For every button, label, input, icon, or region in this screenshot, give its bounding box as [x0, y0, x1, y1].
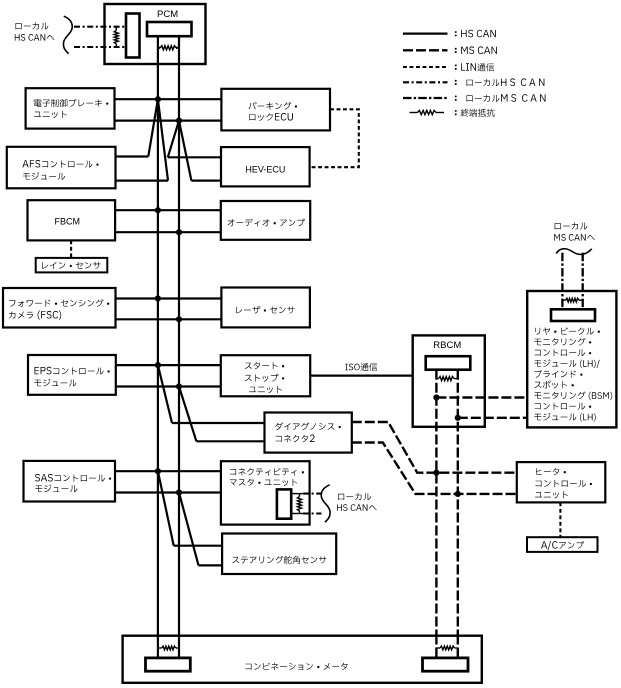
wire diag2 CAN-L: [196, 440, 264, 442]
module connector rear monitor: [551, 309, 595, 321]
label ISO comm: [345, 363, 377, 371]
terminating resistor meter left: [158, 647, 162, 649]
node MS1/heater: [433, 470, 439, 476]
wire MS CAN to rear monitor line2: [458, 417, 527, 419]
wire diag2 MS line1: [352, 422, 517, 473]
ECU box: audio amp: [221, 201, 310, 240]
ECU box: diagnosis connector 2: [265, 413, 352, 453]
wire local HS CAN lower (dash-dot): [74, 46, 126, 48]
wire MS bus2 inside meter: [457, 635, 459, 658]
node bus2/FSC: [176, 316, 182, 322]
terminating resistor in RBCM: [436, 378, 438, 380]
legend line local HS CAN: [403, 81, 448, 83]
ECU box: A/C amp: [527, 537, 598, 552]
legend label LIN: [455, 63, 494, 71]
wire SAS CAN-H to connectivity: [115, 470, 221, 472]
label connectivity local line1: [338, 493, 371, 500]
label FSC line1: [9, 299, 109, 307]
label diag2 line1: [275, 422, 341, 430]
wire HEV CAN-L: [191, 180, 221, 182]
label rain sensor: [42, 262, 100, 269]
legend label local HS CAN: [455, 78, 545, 86]
wire SAS CAN-L to connectivity: [115, 491, 221, 493]
module connector RBCM: [426, 356, 471, 370]
node bus2/FBCM: [176, 229, 182, 235]
label local HS CAN line2: [15, 34, 55, 41]
wire AFS CAN-H: [116, 155, 149, 157]
label A/C amp: [541, 541, 584, 550]
label local MS line2: [554, 234, 595, 241]
ECU box: HEV-ECU: [221, 147, 310, 186]
terminating resistor meter right: [436, 647, 440, 649]
label laser sensor: [236, 306, 294, 314]
wire ISO comm start-stop to RBCM: [310, 375, 413, 377]
connector J1 inside PCM: [126, 14, 140, 58]
svg-text:HEV-ECU: HEV-ECU: [245, 164, 285, 174]
legend label local MS CAN: [455, 94, 546, 102]
wire FBCM CAN-L to audio amp: [115, 231, 221, 233]
label connectivity line1: [230, 468, 304, 476]
ECU box: SAS control module: [24, 461, 116, 502]
wire diag2 CAN-H: [172, 422, 265, 424]
wire local HS lower (connectivity): [291, 513, 303, 515]
label start-stop line2: [245, 374, 284, 382]
wire diag2 CAN-L diagonal: [179, 387, 196, 442]
ECU box: heater control unit: [517, 462, 606, 502]
label AFS line2: [23, 172, 65, 180]
label parking line1: [249, 102, 297, 110]
wire HEV CAN-L diagonal: [179, 121, 191, 181]
wire diag2 MS line2: [352, 443, 517, 494]
label start-stop line1: [245, 362, 284, 369]
wire steering CAN-L diagonal: [179, 493, 199, 566]
wire FSC CAN-H to laser sensor: [116, 297, 222, 299]
wire CAN-H e-brake to parking ECU: [115, 98, 222, 100]
wire steering CAN-L: [199, 564, 223, 566]
label local HS CAN line1: [16, 22, 49, 29]
wire LIN heater to A/C amp: [559, 502, 561, 537]
terminating resistor local HS (PCM): [115, 27, 117, 31]
wire MS CAN to rear monitor line1: [436, 396, 526, 398]
terminating resistor local MS (rear): [562, 299, 565, 301]
wire local MS bus2 (vertical): [582, 253, 584, 310]
ECU box: steering angle sensor: [222, 534, 336, 575]
label combination meter: [246, 663, 348, 671]
wire FBCM CAN-H to audio amp: [115, 209, 221, 211]
node bus2/e-brake: [176, 118, 182, 124]
ECU box: laser sensor: [221, 288, 310, 328]
wire FSC CAN-L to laser sensor: [116, 318, 222, 320]
label FSC line2: [9, 310, 61, 319]
legend line HS CAN: [403, 32, 448, 34]
legend line MS CAN: [403, 49, 448, 51]
node bus1/FBCM: [155, 207, 161, 213]
ECU box: parking lock ECU: [221, 89, 330, 131]
label heater line2: [536, 480, 593, 487]
svg-text:RBCM: RBCM: [433, 340, 461, 351]
label AFS line1: [22, 160, 98, 168]
wire LIN FBCM to rain sensor: [70, 240, 72, 258]
wire HEV CAN-H diagonal: [168, 121, 179, 158]
node bus1/EPS: [155, 362, 161, 368]
label SAS line1: [35, 474, 111, 482]
wire HS bus1 inside meter: [157, 635, 159, 658]
label EPS line2: [34, 379, 76, 387]
continuation brace (local HS CAN): [63, 16, 72, 53]
legend label HS CAN: [455, 30, 496, 38]
ECU box: connectivity master unit: [221, 461, 310, 524]
label parking line2: [249, 113, 293, 121]
ECU box: AFS control module: [7, 147, 116, 189]
wire HS bus2 inside meter: [178, 635, 180, 658]
continuation wave (local MS CAN): [556, 249, 592, 255]
wire HS bus1 (vertical): [157, 36, 159, 656]
terminating resistor in PCM: [158, 47, 160, 49]
label diag2 line2: [276, 435, 315, 443]
wire AFS CAN-H diagonal: [148, 99, 158, 156]
connector in connectivity unit: [277, 489, 291, 518]
wire MS bus2 inside RBCM: [457, 370, 459, 430]
label rear monitor line9: [534, 413, 595, 422]
wire EPS CAN-L to start-stop: [116, 385, 221, 387]
label SAS line2: [35, 485, 77, 493]
module connector meter left: [146, 658, 191, 671]
label rear monitor line8: [535, 403, 592, 410]
wire MS bus1 inside meter: [435, 635, 437, 658]
node bus1/FSC: [155, 295, 161, 301]
ECU box: rear vehicle monitoring / BSM module: [527, 291, 616, 427]
label connectivity local line2: [337, 504, 377, 511]
label e-brake line2: [34, 111, 67, 118]
ECU box: FBCM: [28, 200, 116, 240]
legend label MS CAN: [455, 46, 497, 54]
ECU box: start stop unit: [221, 355, 310, 396]
wire AFS CAN-L diagonal: [158, 99, 168, 180]
label rear monitor line2: [534, 338, 591, 346]
legend label terminating resistor: [455, 109, 495, 117]
wire diag2 CAN-H diagonal: [158, 365, 172, 423]
node MS2/rear monitor: [455, 415, 461, 421]
wire CAN-L e-brake to parking ECU: [115, 119, 222, 121]
ECU box: rain sensor: [36, 258, 108, 273]
label rear monitor line5: [535, 370, 583, 378]
svg-text:FBCM: FBCM: [55, 216, 81, 226]
label rear monitor line1: [535, 327, 600, 335]
label start-stop line3: [249, 386, 282, 393]
module connector PCM: [147, 22, 192, 36]
wire EPS CAN-H to start-stop: [116, 364, 221, 366]
wire steering CAN-H: [174, 545, 222, 547]
label audio amp: [228, 219, 305, 227]
label EPS line1: [35, 367, 110, 375]
node bus2/EPS: [176, 383, 182, 389]
wire local MS bus1 (vertical): [561, 253, 563, 310]
wire local HS CAN upper (dash-dot): [74, 26, 126, 28]
node bus1/SAS: [155, 468, 161, 474]
ECU box: RBCM: [413, 335, 485, 426]
node bus1/e-brake: [155, 96, 161, 102]
legend terminating resistor symbol: [410, 112, 418, 114]
wire MS bus1 (vertical): [435, 370, 437, 656]
label rear monitor line4: [534, 359, 599, 368]
ECU box: PCM: [105, 4, 206, 64]
label e-brake line1: [34, 99, 109, 107]
node MS1/rear monitor: [433, 394, 439, 400]
wire local HS upper (connectivity): [291, 493, 303, 495]
svg-text:PCM: PCM: [157, 9, 178, 20]
wire HEV CAN-H: [168, 156, 221, 158]
ECU box: electronic brake control unit: [26, 88, 115, 128]
wire AFS CAN-L: [116, 180, 169, 182]
label rear monitor line3: [535, 349, 592, 356]
wire MS bus1 inside RBCM: [435, 370, 437, 430]
legend line LIN: [403, 66, 448, 68]
label rear monitor line7: [534, 392, 612, 401]
wire LIN parking to HEV: [310, 109, 359, 167]
ECU box: EPS control module: [28, 355, 116, 395]
label local MS line1: [555, 222, 588, 229]
continuation brace (connectivity local HS): [321, 485, 330, 522]
module connector meter right: [423, 658, 469, 671]
wire HS bus2 (vertical): [178, 36, 180, 656]
wire steering CAN-H diagonal: [158, 471, 174, 546]
ECU box: forward sensing camera: [3, 288, 116, 328]
label heater line1: [536, 468, 566, 475]
wire MS bus2 (vertical): [457, 370, 459, 656]
legend line local MS CAN: [403, 97, 448, 99]
label steering angle sensor: [232, 556, 326, 564]
ECU box: combination meter: [123, 636, 482, 683]
node bus2/SAS: [176, 489, 182, 495]
label rear monitor line6: [535, 381, 574, 389]
label heater line3: [535, 491, 568, 498]
node MS2/heater: [455, 491, 461, 497]
label connectivity line2: [230, 479, 298, 487]
terminating resistor local HS (connectivity): [299, 494, 301, 497]
